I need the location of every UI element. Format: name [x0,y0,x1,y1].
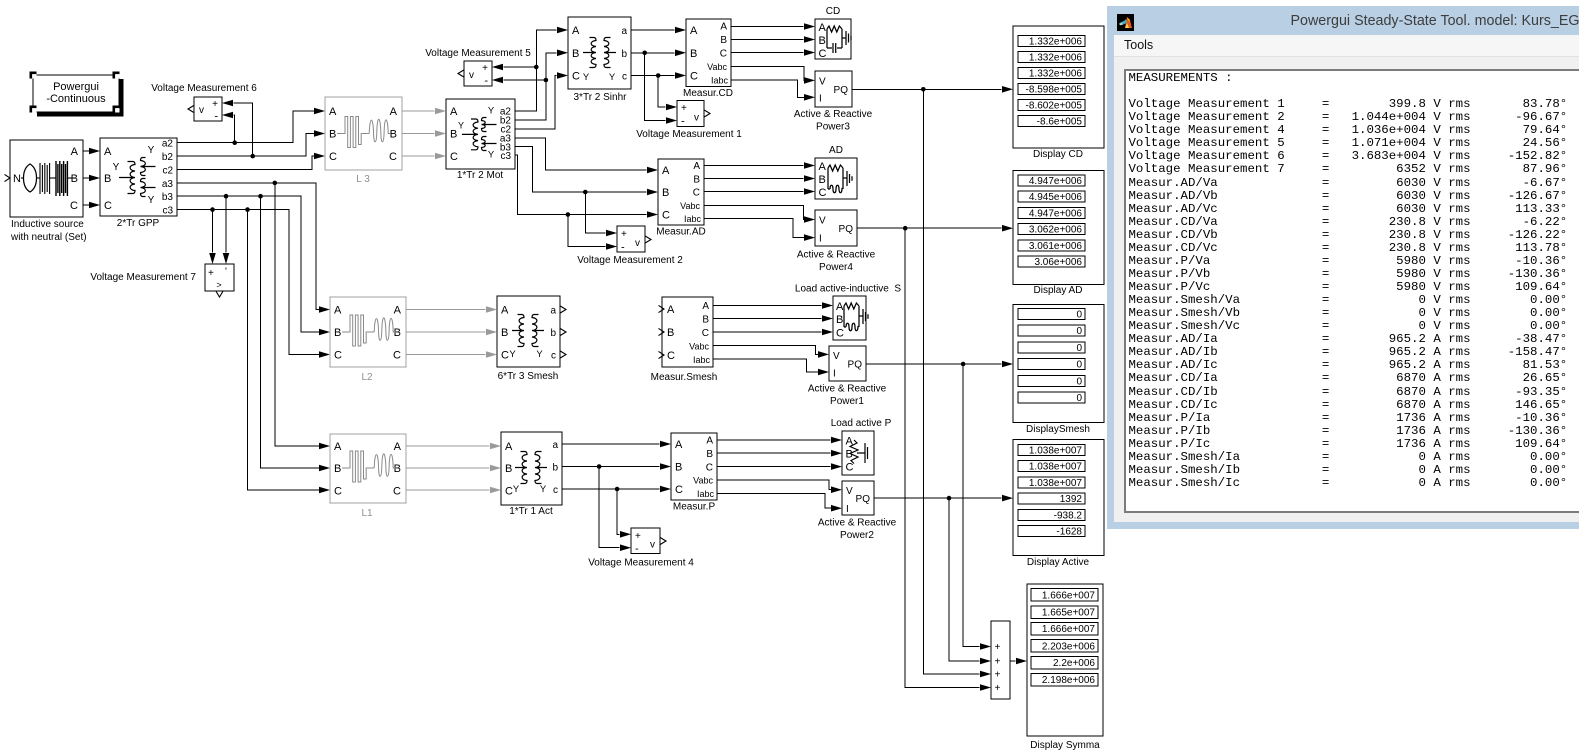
svg-text:c: c [551,351,556,362]
svg-text:B: B [662,187,669,199]
label 1*Tr 2 Mot [457,170,504,181]
wire PQ4 tap down to sum input 4 [905,228,991,691]
inductor block L 3 [325,97,402,170]
display block Display Active [1013,440,1104,556]
wire b tap to VM4 - [599,467,631,552]
svg-text:A: A [104,146,112,158]
label 2*Tr GPP [117,218,160,229]
svg-text:B: B [702,315,709,326]
wire Measur.P Iabc to Power2 I [717,494,842,512]
svg-text:Measur.CD: Measur.CD [683,88,733,99]
svg-text:B: B [394,463,401,475]
svg-text:-: - [635,543,639,555]
svg-text:B: B [329,129,336,141]
svg-text:C: C [819,187,827,199]
svg-text:1.038e+007: 1.038e+007 [1029,462,1083,473]
svg-text:C: C [675,484,683,496]
label Load active-inductive S [795,284,902,295]
svg-text:+: + [995,657,1001,668]
svg-text:CD: CD [826,6,840,17]
svg-text:v: v [469,70,474,81]
wire L1 B to Act B (gray) [406,465,501,472]
wire source A to GPP A [83,148,100,155]
svg-text:Y: Y [488,150,495,161]
svg-text:A: A [450,106,458,118]
svg-text:4.947e+006: 4.947e+006 [1029,208,1083,219]
svg-text:Power1: Power1 [830,396,864,407]
svg-text:Y: Y [540,484,547,495]
svg-text:I: I [846,504,849,515]
svg-text:c2: c2 [162,165,173,176]
wire source C to GPP C [83,202,100,209]
svg-text:C: C [501,350,509,362]
display block Display CD [1013,26,1104,148]
svg-text:B: B [690,48,697,60]
svg-text:-: - [681,116,685,128]
wire Act b to Measur.P B [562,463,671,470]
wire c tap to VM1 + [658,76,677,111]
svg-text:4.945e+006: 4.945e+006 [1029,192,1083,203]
svg-text:Iabc: Iabc [684,214,702,224]
wire Sinhr b to Measur.CD B [631,50,686,57]
svg-text:B: B [505,463,512,475]
svg-text:Voltage Measurement 2: Voltage Measurement 2 [577,255,683,266]
wire Measur.P Vabc to Power2 V [717,480,842,493]
wire L2 A to Smesh A (gray) [406,306,497,313]
svg-text:Voltage Measurement 4: Voltage Measurement 4 [588,558,694,569]
svg-text:C: C [693,188,700,199]
svg-text:Active & Reactive: Active & Reactive [797,250,876,261]
block Active & Reactive Power3 [815,71,852,107]
svg-text:-: - [484,75,488,87]
svg-text:C: C [334,350,342,362]
svg-text:a: a [552,440,558,451]
wire L2 C to Smesh C (gray) [406,351,497,358]
svg-text:a: a [621,26,627,37]
svg-text:Y: Y [509,349,516,360]
wire GPP c2 to L3 C [177,153,325,170]
svg-text:-Continuous: -Continuous [46,93,106,105]
svg-text:C: C [70,200,78,212]
wire b tap to VM1 - [645,53,677,124]
wire L2 B to Smesh B (gray) [406,329,497,336]
svg-text:A: A [662,165,670,177]
svg-text:C: C [690,71,698,83]
svg-text:Voltage Measurement 5: Voltage Measurement 5 [425,48,531,59]
wire Sinhr c to Measur.CD C [631,72,686,79]
wire Mot c2 to Sinhr C [515,72,568,129]
svg-text:C: C [662,210,670,222]
transformer block 1*Tr 2 Mot [446,99,515,169]
svg-text:v: v [199,105,204,116]
svg-text:Y: Y [583,72,590,83]
label Measur.AD [656,227,705,238]
svg-text:Display Active: Display Active [1027,557,1090,568]
svg-text:B: B [390,129,397,141]
wire b3 tap to VM7 - [223,196,230,264]
svg-text:C: C [819,48,827,60]
svg-text:c3: c3 [500,151,511,162]
svg-text:+: + [635,531,641,542]
transformer block 1*Tr 1 Act [501,432,562,505]
wire GPP b3 to L2 B [177,194,330,335]
svg-text:Power2: Power2 [840,530,874,541]
svg-text:b3: b3 [162,192,174,203]
svg-text:C: C [329,151,337,163]
svg-text:3.062e+006: 3.062e+006 [1029,225,1083,236]
svg-text:Measur.P: Measur.P [673,502,716,513]
measurement block Measur.AD [658,159,704,225]
svg-text:A: A [675,439,683,451]
label Active & Reactive Power4 [797,250,876,274]
svg-text:A: A [693,161,700,172]
svg-text:Iabc: Iabc [697,489,715,499]
svg-text:with neutral (Set): with neutral (Set) [10,232,87,243]
svg-text:Y: Y [458,121,464,131]
svg-text:a: a [550,306,556,317]
svg-text:B: B [706,449,713,460]
wire L3 C to Mot C (gray) [402,153,446,160]
svg-text:Load active-inductive S: Load active-inductive S [795,284,902,295]
svg-text:DisplaySmesh: DisplaySmesh [1026,424,1090,435]
svg-text:C: C [667,350,675,362]
wire Measur.P A to P load A [717,437,842,444]
svg-text:B: B [334,463,341,475]
svg-text:B: B [819,35,826,47]
label Voltage Measurement 1 [636,129,742,140]
load block Load active-inductive S (parallel RL) [833,296,868,340]
svg-text:A: A [505,441,513,453]
svg-text:I: I [833,369,836,380]
wire Power4 PQ to Display AD [857,225,1013,232]
svg-text:Iabc: Iabc [711,76,729,86]
transformer block 6*Tr 3 Smesh [497,296,566,367]
label Display CD [1033,149,1083,160]
svg-text:A: A [390,106,398,118]
svg-text:C: C [334,486,342,498]
svg-text:C: C [572,71,580,83]
svg-text:PQ: PQ [834,85,849,96]
wire Measur.AD C to AD C [704,188,815,195]
svg-text:c3: c3 [162,206,173,217]
svg-text:0: 0 [1076,360,1082,371]
svg-text:Inductive source: Inductive source [11,219,84,230]
wire L3 B to Mot B (gray) [402,130,446,137]
wire b3 tap to L1 B [261,196,331,471]
svg-text:c: c [553,485,558,496]
label Active & Reactive Power1 [808,384,887,408]
wire Measur.Smesh C to S load C [713,329,833,336]
wire Measur.AD A to AD A [704,162,815,169]
svg-text:B: B [104,173,111,185]
svg-text:B: B [501,327,508,339]
svg-text:B: B [572,48,579,60]
label 3*Tr 2 Sinhr [574,92,628,103]
label L2 [361,372,373,383]
svg-text:B: B [836,314,843,326]
display block DisplaySmesh [1013,305,1104,423]
wire Measur.AD Vabc to Power4 V [704,206,815,223]
svg-text:+: + [995,683,1001,694]
label L 3 [356,174,370,185]
wire Measur.Smesh A to S load A [713,302,833,309]
wire L1 A to Act A (gray) [406,443,501,450]
svg-text:v: v [694,113,699,124]
wire PQ3 tap down to sum input 3 [923,89,991,677]
svg-text:-: - [621,242,625,254]
svg-text:Voltage Measurement 7: Voltage Measurement 7 [90,272,196,283]
svg-text:C: C [393,486,401,498]
svg-text:Load active P: Load active P [831,418,892,429]
svg-text:Display CD: Display CD [1033,149,1083,160]
svg-text:b2: b2 [162,152,174,163]
svg-text:Active & Reactive: Active & Reactive [794,109,873,120]
wire Measur.CD Vabc to Power3 V [731,67,815,84]
load block Load active P (resistive) [842,431,874,475]
measurement block Measur.CD [686,19,731,87]
svg-text:0: 0 [1076,326,1082,337]
wire Measur.P C to P load C [717,463,842,470]
svg-text:b: b [552,463,558,474]
block Powergui -Continuous (annotation with selection handles) [30,72,124,117]
label Display AD [1034,285,1083,296]
wire Act c to Measur.P C [562,486,671,493]
svg-text:0: 0 [1076,376,1082,387]
svg-text:-8.6e+005: -8.6e+005 [1037,117,1083,128]
svg-text:3.06e+006: 3.06e+006 [1034,257,1082,268]
svg-text:B: B [71,173,78,185]
wire Measur.CD B to CD B [731,36,815,43]
svg-text:Y: Y [148,195,155,206]
svg-text:Measur.Smesh: Measur.Smesh [651,372,718,383]
wire source B to GPP B [83,175,100,182]
wire Measur.P B to P load B [717,450,842,457]
svg-text:+: + [995,670,1001,681]
wire L3 A to Mot A (gray) [402,108,446,115]
svg-text:b: b [621,49,627,60]
svg-text:A: A [706,436,713,447]
svg-text:C: C [720,49,727,60]
block Voltage Measurement 2 [617,226,651,254]
svg-text:3*Tr 2 Sinhr: 3*Tr 2 Sinhr [574,92,628,103]
label Inductive source with neutral (Set) [10,219,87,243]
svg-text:1.332e+006: 1.332e+006 [1029,37,1083,48]
svg-text:1.666e+007: 1.666e+007 [1042,590,1096,601]
svg-text:Y: Y [609,72,616,83]
svg-text:Active & Reactive: Active & Reactive [808,384,887,395]
svg-text:Vabc: Vabc [693,476,713,486]
svg-text:1.666e+007: 1.666e+007 [1042,624,1096,635]
block Voltage Measurement 4 [631,528,666,555]
wire Power3 PQ to Display CD [852,86,1013,93]
label Active & Reactive Power2 [818,518,897,542]
svg-text:Active & Reactive: Active & Reactive [818,518,897,529]
block Voltage Measurement 7 [205,264,234,297]
wire c3 tap to VM7 + [209,210,216,264]
svg-text:1.038e+007: 1.038e+007 [1029,478,1083,489]
svg-text:v: v [635,238,640,249]
label Voltage Measurement 5 [425,48,531,59]
svg-text:B: B [667,327,674,339]
svg-text:V: V [833,351,840,362]
label DisplaySmesh [1026,424,1090,435]
svg-text:A: A [702,301,709,312]
wire Measur.AD B to AD B [704,175,815,182]
label Load active P [831,418,892,429]
svg-text:1*Tr 1 Act: 1*Tr 1 Act [509,506,553,517]
svg-text:PQ: PQ [839,224,854,235]
svg-text:Power4: Power4 [819,262,853,273]
svg-text:Voltage Measurement 6: Voltage Measurement 6 [151,83,257,94]
svg-text:B: B [720,35,727,46]
svg-text:1392: 1392 [1060,494,1083,505]
label Display Active [1027,557,1090,568]
svg-text:+: + [681,103,687,114]
label Voltage Measurement 7 [90,272,196,283]
svg-text:-938.2: -938.2 [1054,510,1083,521]
label Voltage Measurement 6 [151,83,257,94]
svg-text:Voltage Measurement 1: Voltage Measurement 1 [636,129,742,140]
svg-text:PQ: PQ [848,360,863,371]
block Active & Reactive Power4 [815,210,857,246]
svg-text:C: C [702,328,709,339]
svg-text:a3: a3 [162,179,174,190]
svg-text:+: + [208,268,214,279]
svg-text:+: + [621,229,627,240]
svg-text:Vabc: Vabc [689,342,709,352]
svg-text:a2: a2 [162,139,174,150]
wire PQ1 tap down to sum input 1 [963,364,991,650]
svg-text:+: + [482,63,488,74]
svg-text:A: A [501,305,509,317]
svg-text:4.947e+006: 4.947e+006 [1029,176,1083,187]
svg-text:Y: Y [513,484,520,495]
wire Measur.CD Iabc to Power3 I [731,80,815,101]
wire sum output to Display Symma [1010,658,1027,665]
svg-text:B: B [394,327,401,339]
svg-text:Vabc: Vabc [680,201,700,211]
wire Measur.CD A to CD A [731,23,815,30]
label L1 [361,508,373,519]
svg-text:B: B [450,129,457,141]
svg-text:': ' [225,267,227,278]
wire Measur.AD Iabc to Power4 I [704,219,815,241]
label Measur.Smesh [651,372,718,383]
svg-text:V: V [846,486,853,497]
svg-text:C: C [104,200,112,212]
svg-text:C: C [846,462,854,474]
svg-text:A: A [690,25,698,37]
label 1*Tr 1 Act [509,506,553,517]
svg-text:1.665e+007: 1.665e+007 [1042,608,1096,619]
svg-text:-8.602e+005: -8.602e+005 [1026,101,1083,112]
svg-text:V: V [819,216,826,227]
svg-text:B: B [675,462,682,474]
measurement block Measur.Smesh [659,297,714,367]
svg-text:Iabc: Iabc [693,355,711,365]
svg-text:C: C [450,151,458,163]
svg-text:PQ: PQ [856,494,871,505]
wire b2 tap to VM5 - [492,77,546,84]
window Powergui Steady-State Tool [1107,6,1579,529]
svg-text:B: B [819,174,826,186]
svg-text:A: A [334,441,342,453]
label Measur.CD [683,88,733,99]
source block Inductive source with neutral (Set) [5,140,84,217]
wire PQ2 tap down to sum input 2 [949,498,991,664]
display block Display AD [1013,171,1104,285]
load block CD (parallel RC) [815,19,851,60]
wire Power1 PQ to DisplaySmesh [866,361,1013,368]
measurements listbox [1124,69,1579,513]
svg-text:2.203e+006: 2.203e+006 [1042,641,1096,652]
wire VM6 + from b2 tap [222,100,255,159]
block Active & Reactive Power2 [842,481,874,515]
svg-text:Measur.AD: Measur.AD [656,227,705,238]
svg-text:1.332e+006: 1.332e+006 [1029,69,1083,80]
svg-text:+: + [212,99,218,110]
svg-text:Y: Y [488,106,495,117]
svg-text:A: A [394,305,402,317]
svg-text:0: 0 [1076,343,1082,354]
wire L1 C to Act C (gray) [406,487,501,494]
wire GPP a3 to L2 A [177,181,330,313]
svg-text:A: A [394,441,402,453]
wire Measur.Smesh B to S load B [713,315,833,322]
label Active & Reactive Power3 [794,109,873,133]
svg-text:V: V [819,77,826,88]
block Voltage Measurement 6 [188,97,222,123]
svg-text:2*Tr GPP: 2*Tr GPP [117,218,160,229]
svg-text:C: C [706,462,713,473]
svg-text:C: C [389,151,397,163]
wire Measur.CD C to CD C [731,49,815,56]
inductor block L1 [330,434,406,503]
svg-text:AD: AD [829,145,843,156]
svg-text:c: c [622,72,627,83]
menu bar Tools [1114,35,1579,57]
svg-text:Y: Y [113,162,120,173]
svg-text:>: > [216,280,221,290]
svg-text:-1628: -1628 [1056,527,1082,538]
wire Mot c3 to Measur.AD C [515,155,658,218]
svg-text:B: B [334,327,341,339]
svg-text:A: A [71,146,79,158]
svg-text:C: C [393,350,401,362]
block Active & Reactive Power1 [829,346,866,381]
svg-text:6*Tr 3 Smesh: 6*Tr 3 Smesh [498,371,559,382]
wire c tap to VM4 + [617,489,631,538]
wire Mot b2 to Sinhr B [515,50,568,121]
wire GPP b2 to L3 B [177,130,325,156]
wire b3 tap to VM2 + [585,192,617,236]
load block AD (parallel RL) [815,158,857,199]
svg-text:2.198e+006: 2.198e+006 [1042,675,1096,686]
svg-text:L2: L2 [361,372,373,383]
svg-text:1*Tr 2 Mot: 1*Tr 2 Mot [457,170,504,181]
svg-text:1.038e+007: 1.038e+007 [1029,445,1083,456]
label Voltage Measurement 4 [588,558,694,569]
svg-text:A: A [819,161,827,173]
wire Mot a2 to Sinhr A [515,27,568,111]
svg-text:N: N [13,173,21,185]
wire Measur.Smesh Vabc to Power1 V [713,346,829,358]
svg-text:1.332e+006: 1.332e+006 [1029,53,1083,64]
svg-text:0: 0 [1076,393,1082,404]
svg-text:Display AD: Display AD [1034,285,1083,296]
svg-text:Vabc: Vabc [707,62,727,72]
wire Measur.Smesh Iabc to Power1 I [713,359,829,375]
